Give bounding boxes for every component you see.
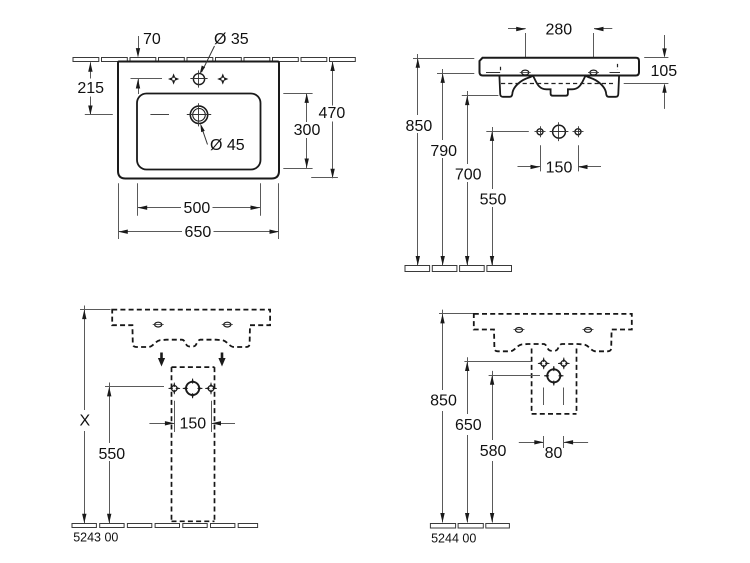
wall hatch strip (top view) <box>73 58 99 62</box>
dim 280 <box>508 28 526 30</box>
svg-text:850: 850 <box>430 393 457 410</box>
pedestal (dashed) <box>172 366 215 368</box>
svg-text:700: 700 <box>455 167 482 184</box>
svg-text:500: 500 <box>184 200 211 217</box>
leader D35 <box>202 46 215 72</box>
leader D45 <box>203 131 208 145</box>
svg-text:470: 470 <box>319 105 346 122</box>
dim 215 <box>90 62 92 78</box>
dim 580 <box>489 375 540 377</box>
dim 70 <box>138 36 140 49</box>
svg-text:X: X <box>79 412 90 429</box>
dim 105 <box>664 35 666 49</box>
svg-text:790: 790 <box>430 143 457 160</box>
drain circle (D45) <box>190 106 207 123</box>
svg-text:280: 280 <box>545 22 572 39</box>
dim 700 <box>462 95 499 97</box>
svg-text:105: 105 <box>650 63 677 80</box>
dim 650 (half-pedestal) <box>464 361 531 363</box>
svg-text:5244 00: 5244 00 <box>431 532 476 546</box>
dim 470 <box>332 62 334 106</box>
tap hole crosses <box>168 73 179 84</box>
dim 650 <box>118 183 120 239</box>
basin outer rim (top view) <box>118 62 279 179</box>
svg-text:215: 215 <box>77 80 104 97</box>
centre dash left of drain <box>150 114 169 116</box>
svg-text:650: 650 <box>455 417 482 434</box>
basin silhouette (dashed) <box>112 310 270 347</box>
svg-text:580: 580 <box>480 443 507 460</box>
dim 850 (half-pedestal) <box>439 313 473 315</box>
dim 300 <box>283 93 312 95</box>
pedestal holes <box>169 383 181 395</box>
mounting arrows <box>160 353 163 360</box>
basin silhouette (dashed, half-pedestal view) <box>474 314 632 351</box>
dim X <box>80 309 111 311</box>
siphon cover holes <box>538 358 550 370</box>
floor hatch strip (half-pedestal view) <box>430 524 455 529</box>
dim 850 (front) <box>413 58 474 60</box>
svg-text:80: 80 <box>545 445 563 462</box>
rim slab (front view) <box>480 58 640 76</box>
svg-text:150: 150 <box>179 416 206 433</box>
svg-text:150: 150 <box>546 159 573 176</box>
dim 150 (pedestal) <box>149 423 174 425</box>
svg-text:Ø 45: Ø 45 <box>210 137 245 154</box>
ext lines 280 <box>525 33 527 57</box>
basin fixing holes (dashed view) <box>515 328 522 333</box>
svg-text:Ø 35: Ø 35 <box>214 31 249 48</box>
dim 550 (front) <box>486 131 529 133</box>
rim fixing holes <box>522 70 529 75</box>
dim 500 <box>137 183 139 215</box>
dim 790 <box>437 73 474 75</box>
svg-text:300: 300 <box>294 122 321 139</box>
dim 80 <box>519 442 544 444</box>
hidden water line (dashed) <box>501 83 613 85</box>
svg-text:70: 70 <box>143 31 161 48</box>
dim 550 (pedestal) <box>105 386 164 388</box>
svg-text:650: 650 <box>185 224 212 241</box>
wall fixing holes (front) <box>537 129 543 135</box>
svg-text:550: 550 <box>480 192 507 209</box>
basin apron / bowl underside <box>499 76 619 97</box>
hidden overflow stubs <box>500 67 502 73</box>
basin fixing holes (dashed view) <box>155 322 162 327</box>
rim inner back edge <box>486 72 500 74</box>
dim 150 (front) <box>518 166 541 168</box>
floor hatch strip (pedestal view) <box>72 524 96 528</box>
floor hatch strip (front view) <box>405 266 430 272</box>
svg-text:550: 550 <box>98 446 125 463</box>
siphon cover (dashed) <box>531 349 533 414</box>
ext lines 80 <box>543 388 545 406</box>
ext lines wall holes <box>540 145 542 171</box>
svg-text:5243 00: 5243 00 <box>73 531 118 545</box>
tap hole circle (D35) <box>193 73 204 84</box>
basin inner bowl (top view) <box>137 94 261 170</box>
svg-text:850: 850 <box>406 118 433 135</box>
ext lines 150 (pedestal) <box>174 401 176 432</box>
